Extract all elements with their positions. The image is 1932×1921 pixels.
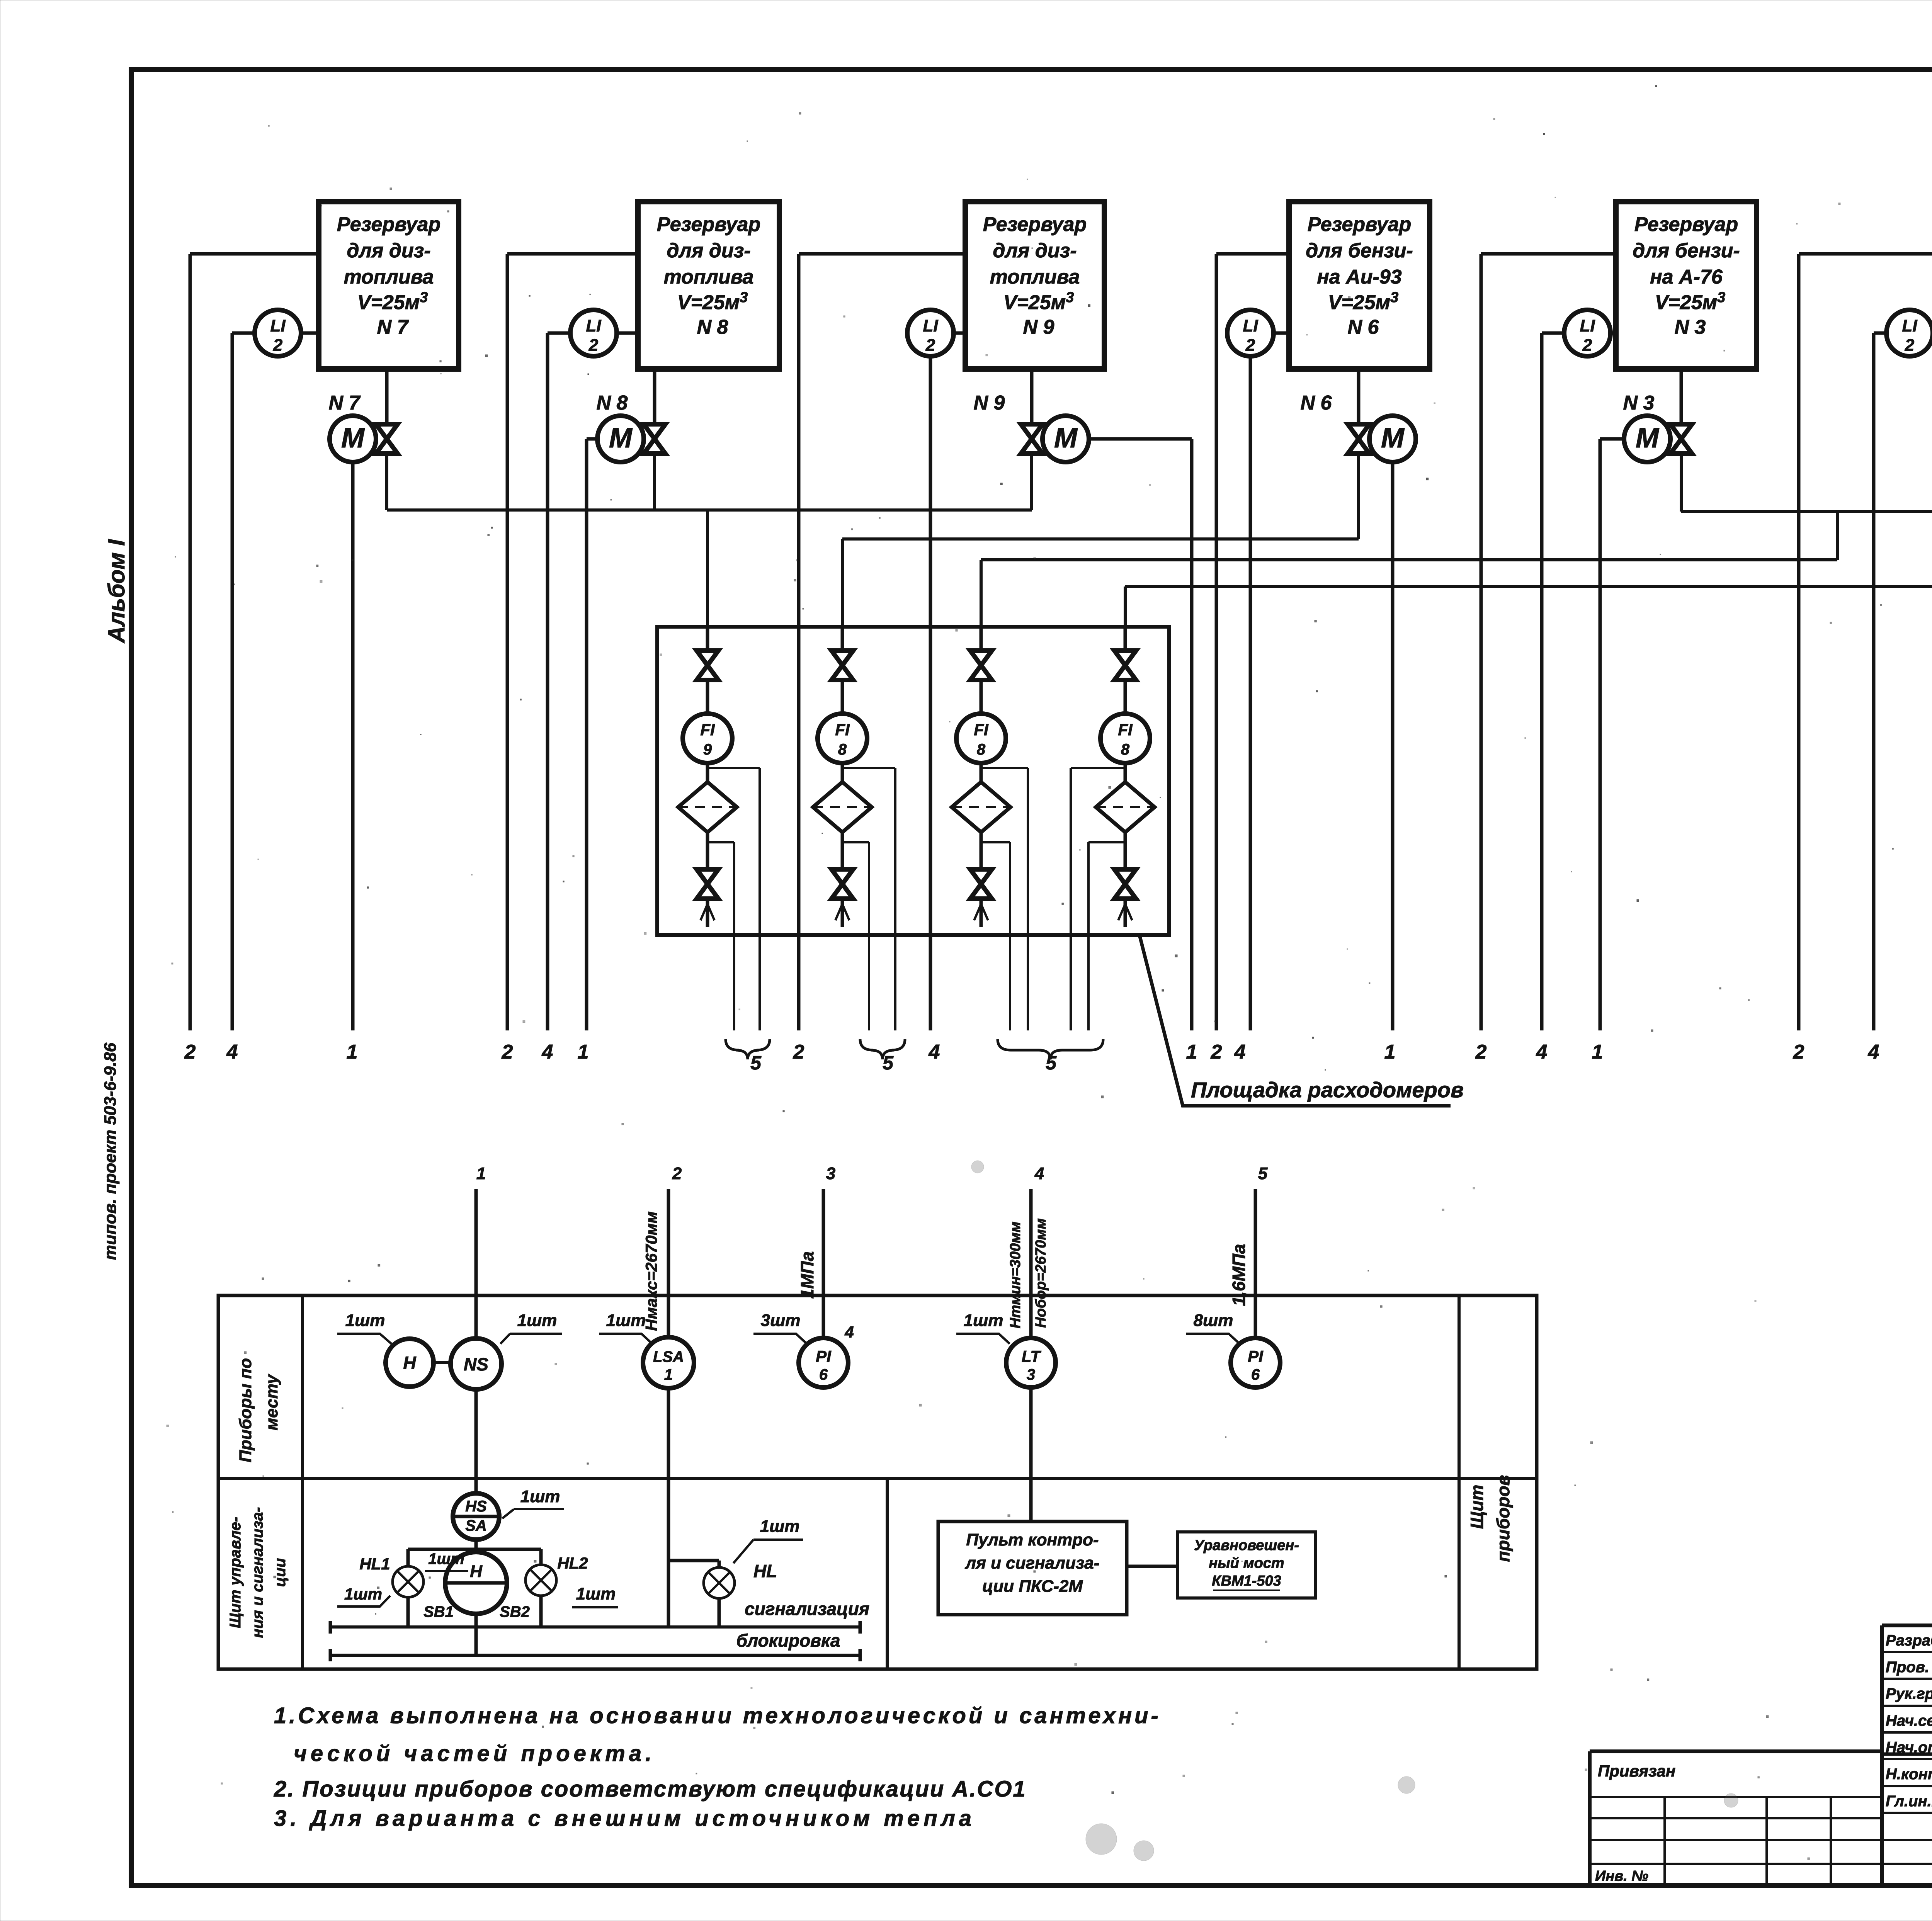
svg-text:для диз-: для диз- xyxy=(347,240,430,262)
svg-text:Резервуар: Резервуар xyxy=(337,213,440,236)
svg-text:2: 2 xyxy=(1211,1041,1222,1063)
svg-text:типов. проект 503-6-9.86: типов. проект 503-6-9.86 xyxy=(101,1042,120,1260)
svg-text:4: 4 xyxy=(542,1041,553,1063)
svg-text:Резервуар: Резервуар xyxy=(983,213,1087,236)
svg-text:FI: FI xyxy=(974,721,989,739)
svg-text:N 8: N 8 xyxy=(597,392,628,414)
svg-text:Резервуар: Резервуар xyxy=(1308,213,1411,236)
svg-text:Щит управле-: Щит управле- xyxy=(227,1517,244,1628)
svg-text:5: 5 xyxy=(1046,1052,1057,1074)
svg-text:1шт: 1шт xyxy=(606,1311,646,1330)
svg-text:ния и сигнализа-: ния и сигнализа- xyxy=(249,1507,266,1638)
svg-text:5: 5 xyxy=(883,1052,894,1074)
svg-text:топлива: топлива xyxy=(990,266,1080,288)
svg-text:LSA: LSA xyxy=(653,1348,684,1365)
svg-text:LI: LI xyxy=(1243,316,1258,335)
svg-text:3. Для варианта с внешним: 3. Для варианта с внешним источником теп… xyxy=(274,1806,975,1831)
svg-text:М: М xyxy=(609,423,633,454)
svg-text:FI: FI xyxy=(1118,721,1133,739)
svg-text:N 8: N 8 xyxy=(697,316,728,338)
svg-text:8: 8 xyxy=(977,741,986,758)
svg-text:топлива: топлива xyxy=(344,266,434,288)
svg-text:Н: Н xyxy=(403,1353,416,1373)
svg-text:8: 8 xyxy=(838,741,847,758)
svg-text:ческой частей проекта.: ческой частей проекта. xyxy=(294,1741,655,1766)
svg-text:6: 6 xyxy=(1251,1366,1260,1383)
svg-text:PI: PI xyxy=(1248,1347,1264,1365)
svg-text:1.Схема выполнена на основа: 1.Схема выполнена на основании технологи… xyxy=(274,1703,1161,1728)
svg-text:3: 3 xyxy=(1027,1366,1035,1383)
svg-text:1: 1 xyxy=(664,1366,673,1383)
svg-text:N 3: N 3 xyxy=(1675,316,1706,338)
svg-text:2: 2 xyxy=(793,1041,804,1063)
svg-text:для бензи-: для бензи- xyxy=(1306,240,1413,262)
svg-text:2: 2 xyxy=(502,1041,513,1063)
svg-text:1: 1 xyxy=(578,1041,589,1063)
svg-text:2. Позиции приборов соответ: 2. Позиции приборов соответствуют специф… xyxy=(274,1776,1027,1802)
svg-text:2: 2 xyxy=(588,336,599,355)
svg-text:V=25м3: V=25м3 xyxy=(357,289,428,314)
svg-text:Рук.гр.: Рук.гр. xyxy=(1886,1685,1932,1702)
svg-text:4: 4 xyxy=(929,1041,940,1063)
svg-text:9: 9 xyxy=(703,741,712,758)
svg-text:1: 1 xyxy=(476,1164,486,1183)
svg-text:5: 5 xyxy=(1258,1164,1268,1183)
svg-text:4: 4 xyxy=(844,1323,854,1341)
svg-text:LI: LI xyxy=(586,316,601,335)
svg-text:1шт: 1шт xyxy=(428,1550,464,1567)
svg-text:LI: LI xyxy=(1902,316,1917,335)
svg-text:Привязан: Привязан xyxy=(1598,1762,1675,1780)
svg-text:4: 4 xyxy=(1536,1041,1548,1063)
svg-text:N 7: N 7 xyxy=(329,392,361,414)
svg-text:HL: HL xyxy=(753,1561,777,1581)
svg-text:V=25м3: V=25м3 xyxy=(1328,289,1399,314)
svg-text:Гл.ин.пр: Гл.ин.пр xyxy=(1886,1793,1932,1810)
svg-text:Резервуар: Резервуар xyxy=(1634,213,1738,236)
svg-text:LT: LT xyxy=(1022,1347,1042,1365)
svg-text:SB2: SB2 xyxy=(500,1603,530,1620)
svg-text:LI: LI xyxy=(1580,316,1595,335)
svg-text:1шт: 1шт xyxy=(344,1585,382,1603)
svg-text:М: М xyxy=(341,423,365,454)
svg-text:ный мост: ный мост xyxy=(1209,1555,1284,1571)
svg-text:1: 1 xyxy=(1186,1041,1197,1063)
svg-text:1МПа: 1МПа xyxy=(797,1251,817,1299)
svg-text:2: 2 xyxy=(1582,336,1592,355)
svg-text:N 6: N 6 xyxy=(1301,392,1332,414)
svg-text:PI: PI xyxy=(816,1347,832,1365)
svg-text:V=25м3: V=25м3 xyxy=(1003,289,1074,314)
svg-text:сигнализация: сигнализация xyxy=(745,1599,869,1619)
svg-text:Резервуар: Резервуар xyxy=(657,213,760,236)
svg-text:N 7: N 7 xyxy=(377,316,409,338)
svg-text:N 6: N 6 xyxy=(1348,316,1379,338)
svg-text:для бензи-: для бензи- xyxy=(1633,240,1740,262)
svg-text:приборов: приборов xyxy=(1493,1475,1513,1562)
svg-text:1: 1 xyxy=(1384,1041,1396,1063)
svg-text:SA: SA xyxy=(465,1517,487,1534)
svg-text:2: 2 xyxy=(672,1164,682,1183)
svg-text:Альбом I: Альбом I xyxy=(104,539,129,644)
svg-text:N 3: N 3 xyxy=(1623,392,1655,414)
svg-text:Разраб: Разраб xyxy=(1886,1632,1932,1649)
svg-text:М: М xyxy=(1381,423,1405,454)
svg-text:Уравновешен-: Уравновешен- xyxy=(1194,1537,1299,1554)
svg-text:1шт: 1шт xyxy=(576,1584,616,1603)
svg-text:N 9: N 9 xyxy=(1023,316,1054,338)
svg-text:SB1: SB1 xyxy=(423,1603,454,1620)
svg-text:Щит: Щит xyxy=(1467,1485,1487,1529)
svg-text:2: 2 xyxy=(1793,1041,1804,1063)
svg-text:Инв. №: Инв. № xyxy=(1595,1868,1648,1884)
svg-text:месту: месту xyxy=(262,1374,281,1430)
svg-text:НL1: НL1 xyxy=(359,1555,390,1573)
svg-text:HS: HS xyxy=(465,1498,487,1515)
svg-text:ции: ции xyxy=(272,1558,289,1587)
svg-text:на А-76: на А-76 xyxy=(1650,266,1723,288)
svg-text:8: 8 xyxy=(1121,741,1130,758)
svg-text:блокировка: блокировка xyxy=(736,1630,840,1651)
svg-text:топлива: топлива xyxy=(664,266,754,288)
svg-text:6: 6 xyxy=(819,1366,828,1383)
svg-text:FI: FI xyxy=(700,721,715,739)
svg-text:Площадка расходомеров: Площадка расходомеров xyxy=(1191,1078,1464,1102)
svg-text:2: 2 xyxy=(1475,1041,1487,1063)
svg-text:Нобор=2670мм: Нобор=2670мм xyxy=(1033,1218,1049,1328)
svg-text:1,6МПа: 1,6МПа xyxy=(1229,1244,1249,1306)
svg-text:3шт: 3шт xyxy=(761,1311,801,1330)
svg-text:2: 2 xyxy=(273,336,283,355)
svg-text:Пульт контро-: Пульт контро- xyxy=(966,1530,1099,1549)
svg-text:1шт: 1шт xyxy=(760,1517,800,1536)
svg-text:1: 1 xyxy=(347,1041,358,1063)
svg-text:LI: LI xyxy=(923,316,938,335)
svg-text:КВМ1-503: КВМ1-503 xyxy=(1212,1573,1281,1589)
svg-text:8шт: 8шт xyxy=(1194,1311,1233,1330)
svg-text:НL2: НL2 xyxy=(557,1554,588,1572)
svg-text:1шт: 1шт xyxy=(520,1487,560,1506)
svg-text:4: 4 xyxy=(1868,1041,1879,1063)
svg-text:для диз-: для диз- xyxy=(993,240,1077,262)
svg-text:NS: NS xyxy=(464,1354,488,1374)
svg-text:FI: FI xyxy=(835,721,850,739)
svg-text:2: 2 xyxy=(1245,336,1255,355)
svg-text:1шт: 1шт xyxy=(517,1311,557,1330)
svg-text:Н: Н xyxy=(470,1562,483,1581)
svg-text:М: М xyxy=(1636,423,1660,454)
svg-text:5: 5 xyxy=(750,1052,762,1074)
svg-text:4: 4 xyxy=(1034,1164,1044,1183)
svg-text:N 9: N 9 xyxy=(974,392,1005,414)
svg-text:Пров.: Пров. xyxy=(1886,1659,1929,1676)
svg-text:2: 2 xyxy=(1905,336,1915,355)
svg-text:V=25м3: V=25м3 xyxy=(677,289,748,314)
svg-text:V=25м3: V=25м3 xyxy=(1655,289,1726,314)
svg-text:2: 2 xyxy=(925,336,935,355)
svg-text:2: 2 xyxy=(184,1041,196,1063)
svg-text:Приборы по: Приборы по xyxy=(236,1358,255,1462)
svg-text:Нач.сект: Нач.сект xyxy=(1886,1712,1932,1729)
svg-text:4: 4 xyxy=(1234,1041,1246,1063)
svg-text:LI: LI xyxy=(270,316,286,335)
svg-text:Н.контр: Н.контр xyxy=(1886,1766,1932,1783)
svg-text:Нтмин=300мм: Нтмин=300мм xyxy=(1007,1222,1024,1329)
svg-text:ции ПКС-2М: ции ПКС-2М xyxy=(982,1577,1083,1596)
svg-text:на Аи-93: на Аи-93 xyxy=(1317,266,1401,288)
svg-text:М: М xyxy=(1054,423,1078,454)
svg-text:1шт: 1шт xyxy=(964,1311,1003,1330)
svg-text:3: 3 xyxy=(826,1164,835,1183)
svg-text:4: 4 xyxy=(226,1041,238,1063)
svg-text:ля и сигнализа-: ля и сигнализа- xyxy=(965,1554,1100,1572)
svg-text:для диз-: для диз- xyxy=(667,240,750,262)
svg-text:1шт: 1шт xyxy=(345,1311,385,1330)
svg-text:1: 1 xyxy=(1592,1041,1603,1063)
